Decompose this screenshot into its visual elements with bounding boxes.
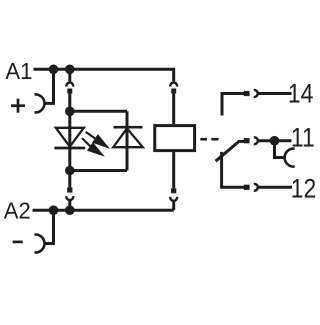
svg-text:A1: A1 [5, 58, 32, 84]
svg-text:14: 14 [288, 79, 314, 109]
svg-text:12: 12 [291, 174, 317, 204]
svg-text:11: 11 [291, 123, 315, 153]
svg-text:A2: A2 [4, 198, 31, 224]
